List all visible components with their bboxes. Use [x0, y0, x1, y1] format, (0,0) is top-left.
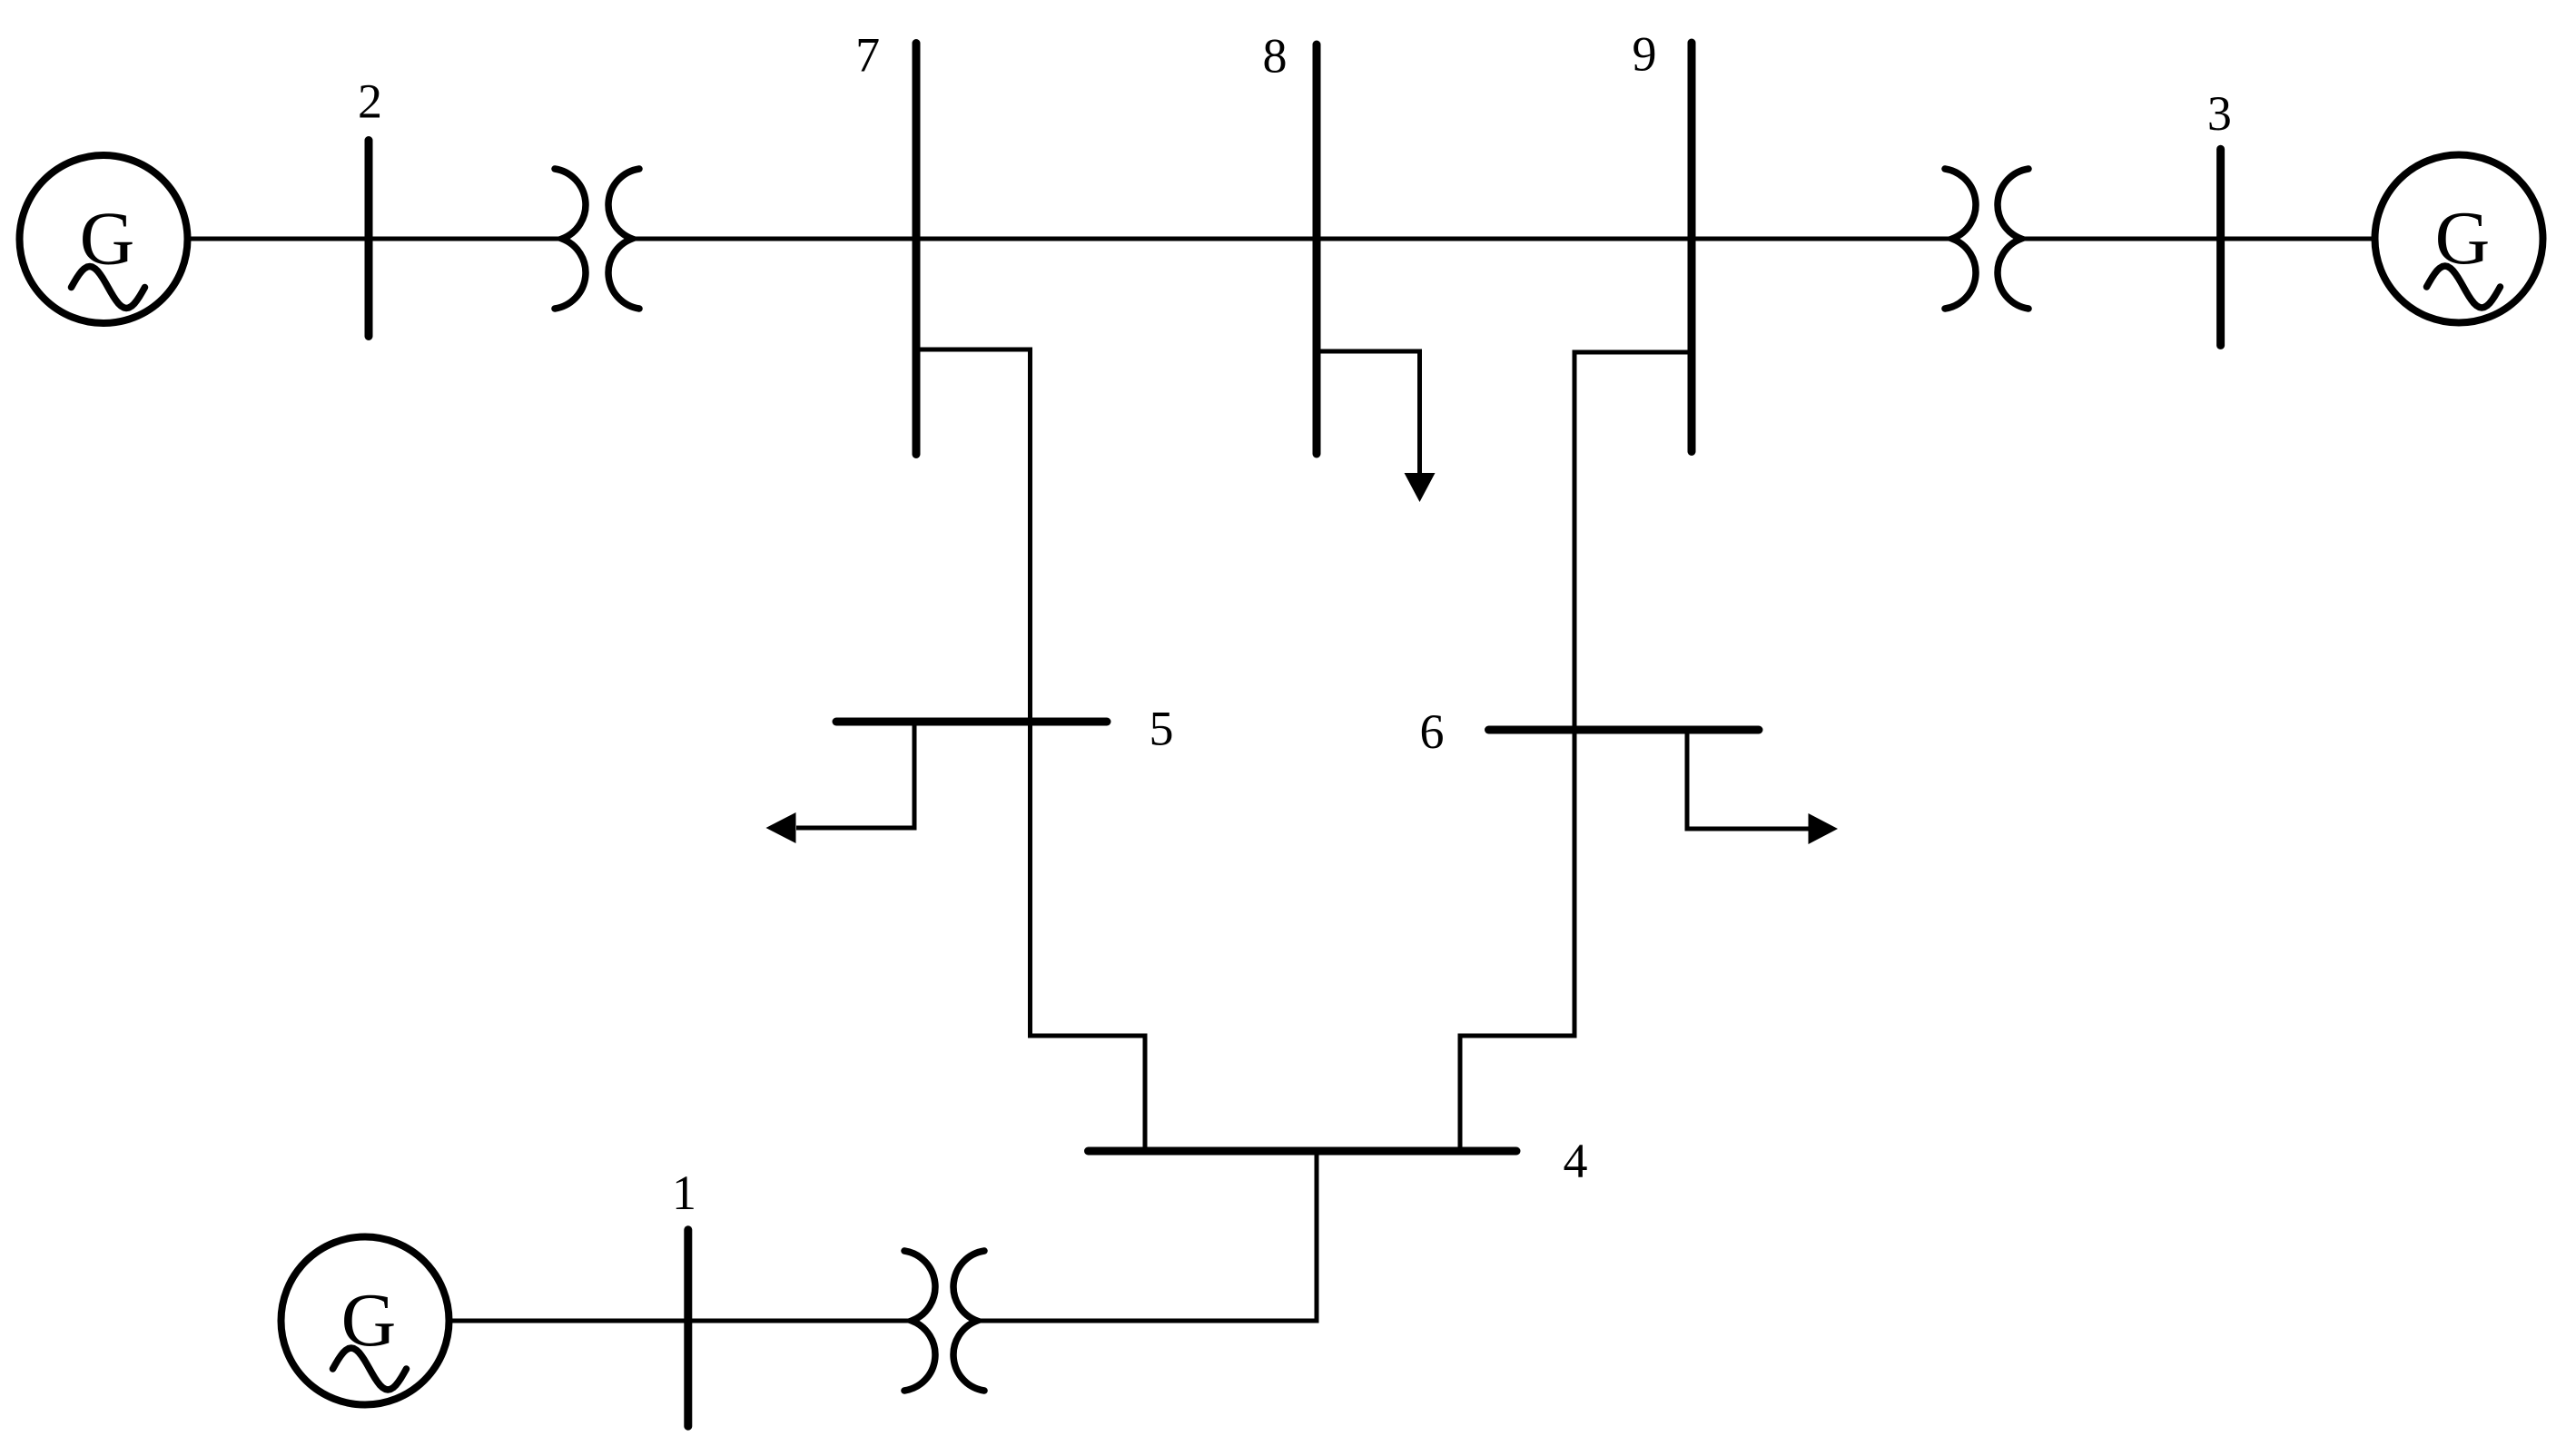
bus 8	[1313, 44, 1321, 454]
generator G1	[281, 1237, 449, 1405]
svg-text:5: 5	[1150, 702, 1174, 756]
svg-text:7: 7	[855, 28, 880, 83]
bus 5	[836, 718, 1107, 726]
generator G3	[2375, 155, 2543, 323]
svg-text:6: 6	[1420, 704, 1445, 759]
svg-text:4: 4	[1564, 1134, 1588, 1188]
bus 7	[913, 44, 921, 455]
load arrow bus 8	[1405, 473, 1436, 502]
load at bus 5 (wire)	[796, 722, 914, 828]
transformer T3	[1945, 169, 2028, 309]
svg-text:1: 1	[672, 1166, 696, 1220]
generator G2	[20, 155, 188, 323]
load arrow bus 6	[1809, 813, 1839, 844]
bus 3	[2216, 149, 2225, 345]
wire T2 to T3 (through buses 7, 8, 9)	[632, 237, 1952, 241]
bus 2	[365, 141, 373, 337]
wire G2 to T2	[187, 237, 563, 241]
load at bus 6 (wire)	[1687, 730, 1809, 829]
bus 6	[1489, 726, 1760, 734]
svg-text:3: 3	[2207, 86, 2232, 141]
wire bus 9 to bus 4 (line 9-6)	[1460, 352, 1692, 1151]
bus 1	[684, 1230, 692, 1426]
svg-text:9: 9	[1633, 27, 1657, 82]
wire bus 4 to T1	[977, 1151, 1317, 1321]
bus 4	[1089, 1147, 1517, 1156]
load arrow bus 5	[766, 812, 796, 843]
load at bus 8 (wire)	[1317, 351, 1420, 473]
wire T3 to G3	[2021, 237, 2377, 241]
wire bus 7 to bus 4 (line 7-5)	[916, 349, 1145, 1151]
svg-text:2: 2	[358, 74, 382, 129]
transformer T1	[904, 1251, 984, 1391]
svg-text:8: 8	[1263, 29, 1288, 84]
wire T1 to G1 (through bus 1)	[451, 1319, 912, 1323]
transformer T2	[555, 169, 639, 309]
bus 9	[1688, 43, 1696, 452]
